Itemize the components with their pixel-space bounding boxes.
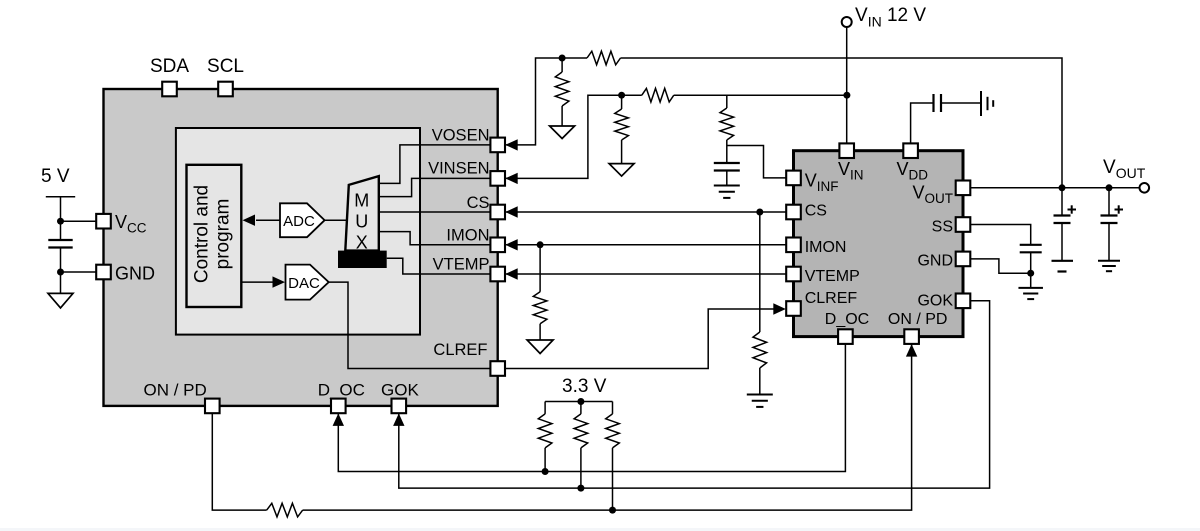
resistor R4 — [726, 95, 728, 108]
svg-text:IMON: IMON — [446, 226, 489, 244]
junction line1 — [559, 55, 566, 62]
pin VTEMP U2 — [786, 267, 801, 282]
pin GND U2 — [956, 252, 971, 267]
VOUT terminal — [1140, 183, 1150, 193]
svg-text:DAC: DAC — [288, 275, 320, 292]
pin VOUT U2 — [956, 181, 971, 196]
MUX to IMON wire — [379, 232, 498, 245]
pin VIN U2 — [839, 143, 854, 158]
svg-text:CS: CS — [467, 194, 490, 212]
svg-text:SCL: SCL — [207, 56, 244, 77]
svg-text:X: X — [356, 233, 368, 253]
junction VOUT 1 — [1059, 184, 1066, 191]
MUX to VINSEN wire — [379, 178, 498, 196]
svg-text:Control and: Control and — [192, 185, 213, 283]
pin VCC — [96, 214, 111, 229]
pin SDA — [162, 82, 177, 97]
pin VTEMP U1 — [490, 267, 505, 282]
svg-text:GOK: GOK — [917, 293, 953, 310]
control to DAC arrowhead — [273, 276, 286, 287]
svg-text:GND: GND — [917, 253, 953, 270]
CLREF arrowhead — [773, 303, 786, 314]
ON/PD arrowhead into U2 — [906, 344, 917, 357]
resistor R10 — [612, 402, 614, 414]
svg-text:VIN 12 V: VIN 12 V — [855, 5, 926, 30]
capacitor C5 — [1108, 188, 1110, 216]
resistor R7 — [267, 503, 303, 517]
svg-text:VTEMP: VTEMP — [433, 256, 490, 274]
ground triangle below R2 — [550, 126, 575, 139]
junction GOK line — [577, 485, 584, 492]
svg-text:CLREF: CLREF — [433, 341, 487, 359]
earth ground below C5 — [1098, 260, 1120, 262]
VTEMP wire — [505, 273, 793, 275]
pin SCL — [218, 82, 233, 97]
svg-text:U: U — [355, 212, 368, 232]
resistor R6 — [753, 332, 767, 368]
control to DAC wire — [241, 281, 272, 283]
GOK wire — [399, 301, 990, 488]
junction VCC — [57, 218, 64, 225]
earth ground below GND junction — [1018, 287, 1042, 289]
svg-text:GOK: GOK — [381, 381, 419, 400]
resistor R9 — [580, 402, 582, 414]
pin GND U1 — [96, 265, 111, 280]
pin CS U1 — [490, 205, 505, 220]
svg-text:SDA: SDA — [150, 56, 189, 77]
CLREF wire — [498, 309, 780, 369]
svg-text:VOSEN: VOSEN — [432, 127, 490, 145]
pin VDD U2 — [903, 143, 918, 158]
resistor R11 — [539, 245, 541, 292]
resistor R2 — [561, 58, 563, 72]
junction GND — [57, 269, 64, 276]
CS arrowhead — [505, 206, 518, 217]
ON/PD wire — [212, 413, 266, 510]
junction IMON divider — [537, 241, 544, 248]
MUX to VOSEN wire — [379, 145, 498, 184]
resistor R1 — [587, 51, 621, 65]
VINSEN arrowhead — [505, 173, 518, 184]
svg-text:5 V: 5 V — [41, 166, 70, 187]
VTEMP arrowhead — [505, 268, 518, 279]
svg-text:CLREF: CLREF — [805, 290, 858, 307]
junction line2 — [618, 92, 625, 99]
pin VINSEN — [490, 171, 505, 186]
ADC block — [280, 203, 325, 237]
pin GOK U2 — [956, 294, 971, 309]
junction line2 VIN — [843, 92, 850, 99]
svg-text:SS: SS — [932, 219, 953, 236]
VIN terminal — [842, 17, 852, 27]
D_OC arrowhead into U1 — [333, 413, 344, 426]
VIN wire — [846, 27, 848, 143]
MUX latch bar — [338, 251, 387, 268]
ground triangle below R3 — [609, 164, 634, 177]
svg-text:D_OC: D_OC — [318, 381, 365, 400]
svg-text:ADC: ADC — [283, 213, 315, 230]
svg-text:VTEMP: VTEMP — [805, 268, 860, 285]
controller core block — [176, 128, 420, 335]
svg-text:VINSEN: VINSEN — [428, 160, 489, 178]
pin CLREF U2 — [786, 301, 801, 316]
MUX to CS wire — [379, 211, 498, 213]
VDD wire — [911, 103, 934, 143]
line2 wire — [674, 94, 847, 96]
pin IMON U2 — [786, 238, 801, 253]
junction GND SS — [1027, 270, 1034, 277]
5V rail — [46, 196, 75, 198]
DAC to CLREF wire — [329, 282, 498, 368]
svg-text:GND: GND — [115, 264, 155, 284]
junction 3.3V rail — [577, 398, 584, 405]
IMON arrowhead — [505, 239, 518, 250]
pin ON/PD U2 — [904, 329, 919, 344]
svg-text:ON / PD: ON / PD — [888, 311, 948, 328]
capacitor C4 — [1061, 188, 1063, 216]
capacitor C1 — [48, 239, 72, 241]
resistor R5 — [642, 88, 674, 102]
earth ground below R6 — [747, 394, 773, 396]
VOUT wire — [963, 187, 1140, 189]
svg-text:CS: CS — [805, 202, 827, 219]
resistor R8 — [544, 402, 546, 414]
D_OC wire — [338, 329, 845, 471]
VOSEN arrowhead — [505, 139, 518, 150]
control and program box — [187, 165, 242, 307]
latch to VTEMP wire — [387, 258, 498, 274]
resistor R3 — [621, 95, 623, 109]
pin ON/PD U1 — [205, 399, 220, 414]
VINSEN sense wire — [505, 95, 642, 178]
wire VCC tap — [61, 220, 104, 222]
earth ground below C2 — [714, 185, 740, 187]
DAC block — [286, 265, 329, 300]
pin VOSEN — [490, 138, 505, 153]
CS divider drop wire — [759, 212, 761, 332]
ground triangle below C1 — [48, 293, 73, 308]
wire GND tap — [61, 271, 104, 273]
pin SS U2 — [956, 217, 971, 232]
VOSEN sense wire — [505, 58, 587, 145]
junction D_OC line — [542, 468, 549, 475]
pin IMON U1 — [490, 238, 505, 253]
IMON wire — [505, 244, 793, 246]
capacitor C2 — [714, 162, 740, 164]
capacitor C3 — [932, 94, 934, 112]
pin CLREF U1 — [490, 361, 505, 376]
junction CS divider — [756, 209, 763, 216]
junction VOUT 2 — [1106, 184, 1113, 191]
svg-text:ON / PD: ON / PD — [144, 381, 207, 400]
CS wire — [505, 211, 793, 213]
chassis ground right of C3 — [980, 91, 982, 116]
digital controller block U1 — [104, 89, 498, 406]
svg-text:program: program — [213, 199, 234, 270]
power block U2 — [794, 151, 964, 337]
ADC to control wire — [256, 219, 281, 221]
GOK arrowhead into U1 — [393, 413, 404, 426]
capacitor C6 — [1020, 244, 1042, 246]
GND wire — [963, 259, 1031, 273]
pin VINF U2 — [786, 171, 801, 186]
VINF branch wire — [727, 146, 794, 178]
3.3V rail — [545, 401, 612, 403]
line1 wire to output — [621, 58, 1063, 188]
pin GOK U1 — [392, 399, 407, 414]
pin D_OC U2 — [838, 329, 853, 344]
svg-text:IMON: IMON — [805, 239, 847, 256]
pin CS U2 — [786, 205, 801, 220]
svg-text:M: M — [354, 191, 369, 211]
footer bar — [0, 528, 1200, 531]
MUX to ADC wire — [325, 219, 347, 221]
svg-text:3.3 V: 3.3 V — [562, 376, 607, 397]
svg-text:D_OC: D_OC — [825, 311, 869, 328]
multiplexer MUX — [345, 176, 379, 251]
pin D_OC U1 — [331, 399, 346, 414]
junction ON/PD line — [609, 507, 616, 514]
ADC to control arrowhead — [243, 215, 256, 226]
ground triangle below R11 — [527, 340, 553, 354]
SS wire — [963, 225, 1031, 245]
